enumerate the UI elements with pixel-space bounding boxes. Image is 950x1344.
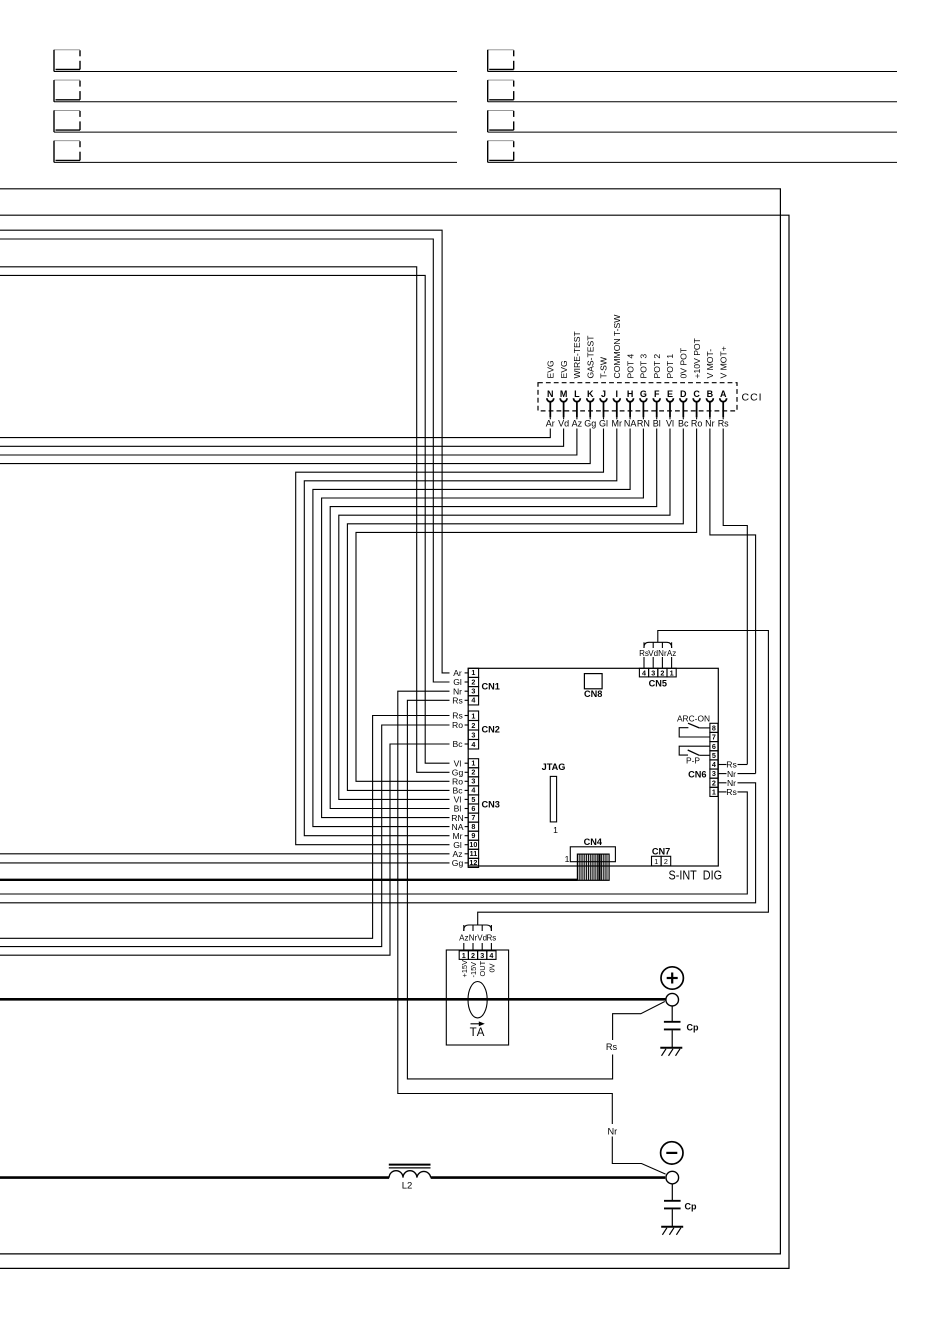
svg-text:1: 1	[471, 711, 475, 720]
note rule row3 col1	[54, 131, 457, 133]
CCI pin L stem	[576, 402, 578, 418]
wire Gg from left edge to CN3 pin 12	[0, 862, 450, 864]
svg-text:S-INT DIG: S-INT DIG	[669, 868, 723, 883]
CN6 pin 2 wire Nr to left edge	[718, 782, 727, 784]
svg-text:CCI: CCI	[742, 392, 763, 404]
note rule row4 col1	[54, 161, 457, 163]
svg-text:4: 4	[471, 786, 475, 795]
svg-text:WIRE-TEST: WIRE-TEST	[572, 330, 582, 378]
TA arrow symbol	[471, 1023, 483, 1025]
wire stub below CCI pin I	[616, 417, 618, 419]
wire from CN5 bundle to TA bundle via right side	[478, 631, 769, 926]
svg-text:CN8: CN8	[584, 689, 602, 699]
CCI pin G stem	[642, 402, 644, 418]
note box row3 col1	[54, 110, 80, 132]
wire stub below CCI pin N	[549, 417, 551, 419]
svg-text:3: 3	[471, 777, 475, 786]
wire Az from left edge to CN3 pin 11	[0, 853, 450, 855]
wire stub below CCI pin F	[656, 417, 658, 419]
svg-text:12: 12	[469, 858, 477, 867]
svg-text:6: 6	[471, 804, 475, 813]
wire stub below CCI pin M	[563, 417, 565, 419]
CCI pin J stem	[603, 402, 605, 418]
wire Bc from CCI pin D to CN3 pin 4	[347, 429, 683, 791]
CCI pin I stem	[616, 402, 618, 418]
svg-text:POT 3: POT 3	[639, 354, 649, 379]
svg-text:Rs: Rs	[718, 418, 729, 428]
svg-text:JTAG: JTAG	[542, 762, 566, 772]
svg-text:Bc: Bc	[678, 418, 689, 428]
svg-text:Nr: Nr	[607, 1126, 617, 1136]
wire Rs from CN2 pin 1 to left edge	[0, 716, 450, 939]
CCI pin J socket contact	[600, 398, 607, 401]
CN3 label-to-cell tie Bc	[465, 789, 469, 791]
note rule row2 col2	[488, 101, 897, 103]
svg-text:J: J	[601, 389, 606, 399]
svg-text:GAS-TEST: GAS-TEST	[585, 335, 595, 379]
svg-text:1: 1	[462, 951, 466, 960]
TA sensing ellipse	[468, 982, 487, 1018]
CN3 label-to-cell tie Vl	[465, 798, 469, 800]
CN3 label-to-cell tie NA	[465, 826, 469, 828]
switch ARC-ON wiring pin 8	[699, 727, 710, 729]
svg-text:G: G	[640, 389, 647, 399]
CN3 label-to-cell tie Az	[465, 853, 469, 855]
CN1 label-to-cell tie Nr	[465, 690, 469, 692]
wire Bc from CN2 pin 4 to left edge	[0, 744, 450, 955]
wire Ro from CN2 pin 2 to left edge	[0, 725, 450, 947]
note rule row1 col2	[488, 71, 897, 73]
switch ARC-ON blade	[688, 723, 699, 728]
connector CN5 cells with pin numbers 4-1	[639, 668, 676, 677]
connector CN2 cells with pin numbers 1-4	[468, 711, 478, 749]
svg-text:EVG: EVG	[559, 360, 569, 378]
svg-text:Cp: Cp	[687, 1023, 699, 1033]
CN6 pin 4 wire label Rs	[718, 764, 727, 766]
TA pin cells 1-4	[459, 951, 496, 960]
svg-text:H: H	[627, 389, 634, 399]
svg-text:1: 1	[670, 668, 674, 677]
svg-text:5: 5	[471, 795, 475, 804]
connector CN4 hatched cable block	[577, 854, 609, 880]
svg-text:CN5: CN5	[649, 679, 667, 689]
svg-text:CN1: CN1	[482, 682, 500, 692]
svg-text:Vd: Vd	[558, 418, 569, 428]
CN1 label-to-cell tie Gl	[465, 681, 469, 683]
inductor L2 core bars	[389, 1164, 431, 1166]
svg-text:Vl: Vl	[666, 418, 674, 428]
svg-text:2: 2	[471, 951, 475, 960]
board S-INT DIG outline	[468, 668, 718, 866]
CCI pin K stem	[589, 402, 591, 418]
svg-text:A: A	[720, 389, 727, 399]
svg-text:L: L	[574, 389, 580, 399]
svg-text:3: 3	[471, 687, 475, 696]
svg-text:E: E	[667, 389, 673, 399]
CN6 pin 3 wire label Nr	[718, 773, 727, 775]
svg-text:OUT: OUT	[478, 960, 487, 976]
CCI pin B socket contact	[707, 398, 714, 401]
note box row1 col1	[54, 50, 80, 72]
svg-text:1: 1	[565, 854, 570, 864]
CCI pin H stem	[629, 402, 631, 418]
svg-text:Rs: Rs	[606, 1042, 618, 1052]
wire Gg from CCI pin K to left edge	[0, 429, 590, 464]
CCI pin A stem	[722, 402, 724, 418]
svg-text:2: 2	[471, 677, 475, 686]
TA pigtail wire Az	[463, 943, 465, 951]
TA pigtail wire Vd	[481, 943, 483, 951]
wire stub below CCI pin B	[709, 417, 711, 419]
svg-text:CN7: CN7	[652, 847, 670, 857]
svg-text:Cp: Cp	[685, 1202, 697, 1212]
svg-text:2: 2	[471, 768, 475, 777]
capacitor Cp at minus terminal	[664, 1201, 681, 1226]
svg-text:11: 11	[470, 849, 478, 858]
svg-text:L2: L2	[402, 1181, 413, 1192]
TA pigtail wire Rs	[490, 943, 492, 951]
CCI pin N stem	[549, 402, 551, 418]
note box row2 col2	[488, 80, 514, 102]
CN3 label-to-cell tie Gl	[465, 844, 469, 846]
connector CCI dashed outline	[538, 383, 737, 411]
svg-text:Ar: Ar	[546, 418, 555, 428]
svg-text:7: 7	[712, 733, 716, 742]
thick output wire plus	[0, 998, 666, 1001]
TA cable bundle bracket	[464, 925, 492, 931]
svg-text:2: 2	[471, 721, 475, 730]
svg-text:N: N	[547, 389, 554, 399]
wire Az from CCI pin L to left edge	[0, 429, 577, 456]
svg-text:Ro: Ro	[691, 418, 703, 428]
svg-text:6: 6	[712, 742, 716, 751]
CN3 label-to-cell tie RN	[465, 817, 469, 819]
svg-text:3: 3	[471, 730, 475, 739]
switch ARC-ON wiring pin 7	[679, 728, 710, 737]
note box row2 col1	[54, 80, 80, 102]
wire Bl from CCI pin F to CN3 pin 6	[330, 429, 657, 809]
svg-text:POT 2: POT 2	[652, 354, 662, 379]
note box row4 col2	[488, 141, 514, 163]
svg-text:I: I	[616, 389, 619, 399]
svg-text:1: 1	[553, 825, 558, 835]
wire Ar from left edge to CN1 pin 1	[0, 230, 450, 673]
CCI pin N socket contact	[547, 398, 554, 401]
CN2 label-to-cell tie Bc	[465, 743, 469, 745]
wire Ar from CCI pin N to left edge	[0, 429, 550, 438]
sheet border frame (inner)	[0, 189, 780, 1254]
svg-text:4: 4	[712, 760, 716, 769]
svg-text:Ro: Ro	[452, 720, 463, 730]
svg-text:Nr: Nr	[658, 649, 667, 658]
svg-text:3: 3	[480, 951, 484, 960]
svg-text:3: 3	[651, 668, 655, 677]
svg-text:CN4: CN4	[584, 837, 603, 847]
thick output wire minus right of L2	[431, 1176, 666, 1179]
svg-text:C: C	[693, 389, 700, 399]
wire NA from CCI pin H to CN3 pin 8	[313, 429, 630, 827]
wire minus post to capacitor Cp	[671, 1184, 673, 1200]
svg-text:V MOT+: V MOT+	[718, 346, 728, 378]
wire Rs from CN1 pin 4 to plus terminal	[407, 700, 612, 1079]
svg-text:1: 1	[471, 759, 475, 768]
note rule row4 col2	[488, 161, 897, 163]
wire Gl from CCI pin J to CN3 pin 10	[296, 429, 604, 845]
CN3 label-to-cell tie Ro	[465, 780, 469, 782]
CN2 label-to-cell tie Rs	[465, 715, 469, 717]
wire Ro from CCI pin C to CN3 pin 3	[356, 429, 697, 782]
wire stub below CCI pin L	[576, 417, 578, 419]
svg-text:POT 4: POT 4	[625, 354, 635, 379]
wire Vl from left edge to CN3 pin 1	[0, 275, 450, 763]
CCI pin M stem	[563, 402, 565, 418]
wire stub below CCI pin H	[629, 417, 631, 419]
CN3 label-to-cell tie Bl	[465, 808, 469, 810]
minus terminal symbol	[661, 1142, 683, 1164]
svg-text:-15V: -15V	[469, 962, 478, 978]
wire stub below CCI pin J	[603, 417, 605, 419]
svg-text:2: 2	[712, 778, 716, 787]
wire stub below CCI pin A	[722, 417, 724, 419]
CN5 pigtail wire Az	[671, 657, 673, 668]
CCI pin M socket contact	[560, 398, 567, 401]
svg-text:Rs: Rs	[487, 933, 497, 942]
svg-text:COMMON T-SW: COMMON T-SW	[612, 314, 622, 379]
CCI pin C stem	[696, 402, 698, 418]
svg-text:4: 4	[489, 951, 493, 960]
inductor L2 windings	[389, 1171, 431, 1178]
wire plus post to capacitor Cp	[671, 1006, 673, 1021]
svg-text:2: 2	[664, 857, 668, 866]
CCI pin E socket contact	[667, 398, 674, 401]
CN3 label-to-cell tie Gg	[465, 771, 469, 773]
JTAG header outline	[550, 776, 556, 822]
TA pigtail wire Nr	[472, 943, 474, 951]
wire stub below CCI pin G	[642, 417, 644, 419]
svg-text:4: 4	[642, 668, 646, 677]
svg-text:EVG: EVG	[546, 360, 556, 378]
svg-text:4: 4	[471, 696, 475, 705]
svg-text:RN: RN	[637, 418, 650, 428]
note rule row1 col1	[54, 71, 457, 73]
CCI pin D socket contact	[680, 398, 687, 401]
CCI pin A socket contact	[720, 398, 727, 401]
svg-text:CN6: CN6	[688, 770, 706, 780]
note box row4 col1	[54, 141, 80, 163]
svg-text:Mr: Mr	[612, 418, 623, 428]
CCI pin C socket contact	[693, 398, 700, 401]
thick wire from CN4 to left edge	[0, 879, 577, 881]
CCI pin I socket contact	[613, 398, 620, 401]
svg-text:T-SW: T-SW	[599, 356, 609, 378]
svg-text:8: 8	[471, 822, 475, 831]
svg-text:Bc: Bc	[452, 739, 463, 749]
svg-text:Nr: Nr	[705, 418, 715, 428]
CN3 label-to-cell tie Vl	[465, 762, 469, 764]
connector CN3 cells with pin numbers 1-12	[468, 759, 478, 868]
svg-text:NA: NA	[624, 418, 637, 428]
svg-text:10: 10	[469, 840, 477, 849]
svg-text:1: 1	[712, 788, 716, 797]
svg-text:F: F	[654, 389, 660, 399]
switch P-P blade	[688, 750, 700, 755]
svg-text:Rs: Rs	[726, 787, 737, 797]
note box row3 col2	[488, 110, 514, 132]
svg-text:Rs: Rs	[452, 696, 463, 706]
CCI pin G socket contact	[640, 398, 647, 401]
connector CN1 cells with pin numbers 1-4	[468, 668, 478, 705]
wire stub below CCI pin E	[669, 417, 671, 419]
wire Mr from CCI pin I to CN3 pin 9	[304, 429, 617, 836]
svg-text:P-P: P-P	[686, 756, 700, 766]
CN3 label-to-cell tie Gg	[465, 862, 469, 864]
svg-text:0V: 0V	[487, 963, 496, 972]
CCI pin K socket contact	[587, 398, 594, 401]
svg-text:Gg: Gg	[584, 418, 596, 428]
connector CN7 cells 1 2	[652, 856, 671, 866]
wire Gl from left edge to CN1 pin 2	[0, 239, 450, 682]
svg-text:Gl: Gl	[599, 418, 608, 428]
CN5 pigtail wire Nr	[661, 657, 663, 668]
svg-text:Az: Az	[459, 933, 468, 942]
thick output wire minus left of L2	[0, 1176, 389, 1179]
CN3 label-to-cell tie Mr	[465, 835, 469, 837]
svg-text:8: 8	[712, 724, 716, 733]
svg-text:K: K	[587, 389, 594, 399]
wire stub below CCI pin C	[696, 417, 698, 419]
wire outer loop	[0, 215, 789, 1268]
connector CN4 outline	[570, 847, 615, 862]
svg-text:Az: Az	[572, 418, 583, 428]
svg-text:1: 1	[471, 668, 475, 677]
switch P-P wiring pin 6	[679, 746, 710, 755]
svg-text:5: 5	[712, 751, 716, 760]
switch P-P wiring pin 5	[699, 754, 710, 756]
connector CN6 cells with pin numbers 8-1	[710, 723, 718, 796]
svg-text:TA: TA	[470, 1027, 486, 1039]
svg-text:D: D	[680, 389, 687, 399]
svg-text:CN2: CN2	[482, 725, 500, 735]
svg-text:Nr: Nr	[469, 933, 478, 942]
wire stub below CCI pin D	[682, 417, 684, 419]
svg-text:V MOT-: V MOT-	[705, 349, 715, 379]
CCI pin E stem	[669, 402, 671, 418]
plus terminal symbol	[661, 967, 683, 989]
CN2 label-to-cell tie Ro	[465, 724, 469, 726]
svg-text:Gg: Gg	[452, 858, 464, 868]
svg-text:9: 9	[471, 831, 475, 840]
CCI pin L socket contact	[574, 398, 581, 401]
CCI pin F socket contact	[653, 398, 660, 401]
svg-text:ARC-ON: ARC-ON	[677, 714, 710, 724]
svg-text:Vd: Vd	[648, 649, 658, 658]
plus terminal post	[666, 993, 679, 1006]
wire Vd from CCI pin M to left edge	[0, 429, 564, 447]
connector CN8 box	[584, 674, 602, 689]
svg-text:Az: Az	[667, 649, 676, 658]
wire Vl from CCI pin E to CN3 pin 5	[339, 429, 670, 800]
ground symbol at plus terminal	[660, 1048, 682, 1056]
svg-text:Rs: Rs	[452, 711, 463, 721]
CN1 label-to-cell tie Ar	[465, 672, 469, 674]
svg-text:POT 1: POT 1	[665, 354, 675, 379]
svg-text:B: B	[707, 389, 714, 399]
svg-text:M: M	[560, 389, 568, 399]
note rule row2 col1	[54, 101, 457, 103]
CCI pin D stem	[682, 402, 684, 418]
svg-text:CN3: CN3	[482, 800, 500, 810]
CCI pin H socket contact	[627, 398, 634, 401]
svg-text:2: 2	[660, 668, 664, 677]
svg-text:Bl: Bl	[653, 418, 661, 428]
CN5 cable bundle bracket	[644, 642, 672, 648]
wire Gg from left edge to CN3 pin 2	[0, 267, 450, 773]
wire stub below CCI pin K	[589, 417, 591, 419]
CN5 pigtail wire Vd	[652, 657, 654, 668]
minus terminal post	[666, 1171, 679, 1184]
wire RN from CCI pin G to CN3 pin 7	[322, 429, 644, 818]
CCI pin B stem	[709, 402, 711, 418]
transformer TA outline	[446, 950, 508, 1045]
svg-text:+10V POT: +10V POT	[692, 337, 702, 378]
svg-text:1: 1	[654, 857, 658, 866]
svg-text:+15V: +15V	[460, 960, 469, 978]
svg-text:7: 7	[471, 813, 475, 822]
CN1 label-to-cell tie Rs	[465, 699, 469, 701]
wire Rs from CCI pin A down to CN6 pin 4 riser	[723, 429, 747, 765]
ground symbol at minus terminal	[661, 1227, 683, 1235]
CN5 pigtail wire Rs	[643, 657, 645, 668]
CN6 pin 1 wire Rs to left edge	[718, 791, 727, 793]
note rule row3 col2	[488, 131, 897, 133]
wire Nr from CCI pin B down to CN6 pin 3 riser	[710, 429, 756, 774]
wire Nr from CN1 pin 3 to minus terminal	[398, 691, 613, 1124]
svg-text:4: 4	[471, 740, 475, 749]
CCI pin F stem	[656, 402, 658, 418]
svg-text:0V POT: 0V POT	[679, 347, 689, 378]
note box row1 col2	[488, 50, 514, 72]
svg-text:3: 3	[712, 769, 716, 778]
capacitor Cp at plus terminal	[664, 1022, 681, 1047]
